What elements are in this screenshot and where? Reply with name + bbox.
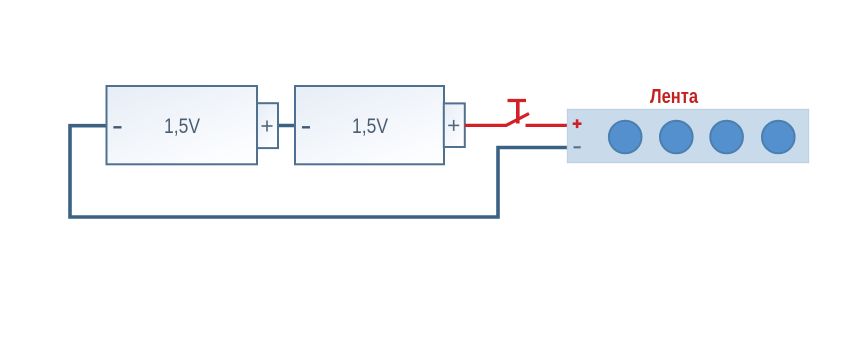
wire negative return: strip to battery1 minus: [70, 126, 567, 217]
LED strip minus mark: [574, 146, 581, 148]
battery B2 body: [295, 86, 444, 164]
battery B1 body: [107, 86, 258, 164]
LED D3: [710, 121, 743, 154]
pushbutton switch S1 arm: [507, 114, 530, 126]
battery B1 minus sign: [113, 126, 121, 128]
wire terminal1 plus to battery2 minus: [278, 124, 296, 128]
pushbutton switch S1 plunger stem: [516, 101, 520, 124]
battery B2 plus sign: [448, 120, 459, 131]
LED D1: [609, 121, 642, 154]
wire positive: switch to LED strip: [526, 124, 568, 127]
svg-text:1,5V: 1,5V: [164, 115, 200, 138]
pushbutton switch S1 cap bar: [508, 99, 527, 102]
battery B1 plus sign: [262, 121, 273, 132]
LED strip body: [567, 109, 808, 162]
battery B1 plus terminal box: [257, 103, 278, 148]
LED D4: [762, 121, 795, 154]
LED strip plus mark: [573, 119, 582, 128]
LED D2: [660, 121, 693, 154]
svg-text:Лента: Лента: [650, 86, 699, 108]
svg-text:1,5V: 1,5V: [352, 115, 388, 138]
battery B2 plus terminal box: [444, 103, 465, 147]
wire positive: battery B2 plus to switch: [465, 124, 507, 127]
battery B2 minus sign: [302, 126, 310, 128]
